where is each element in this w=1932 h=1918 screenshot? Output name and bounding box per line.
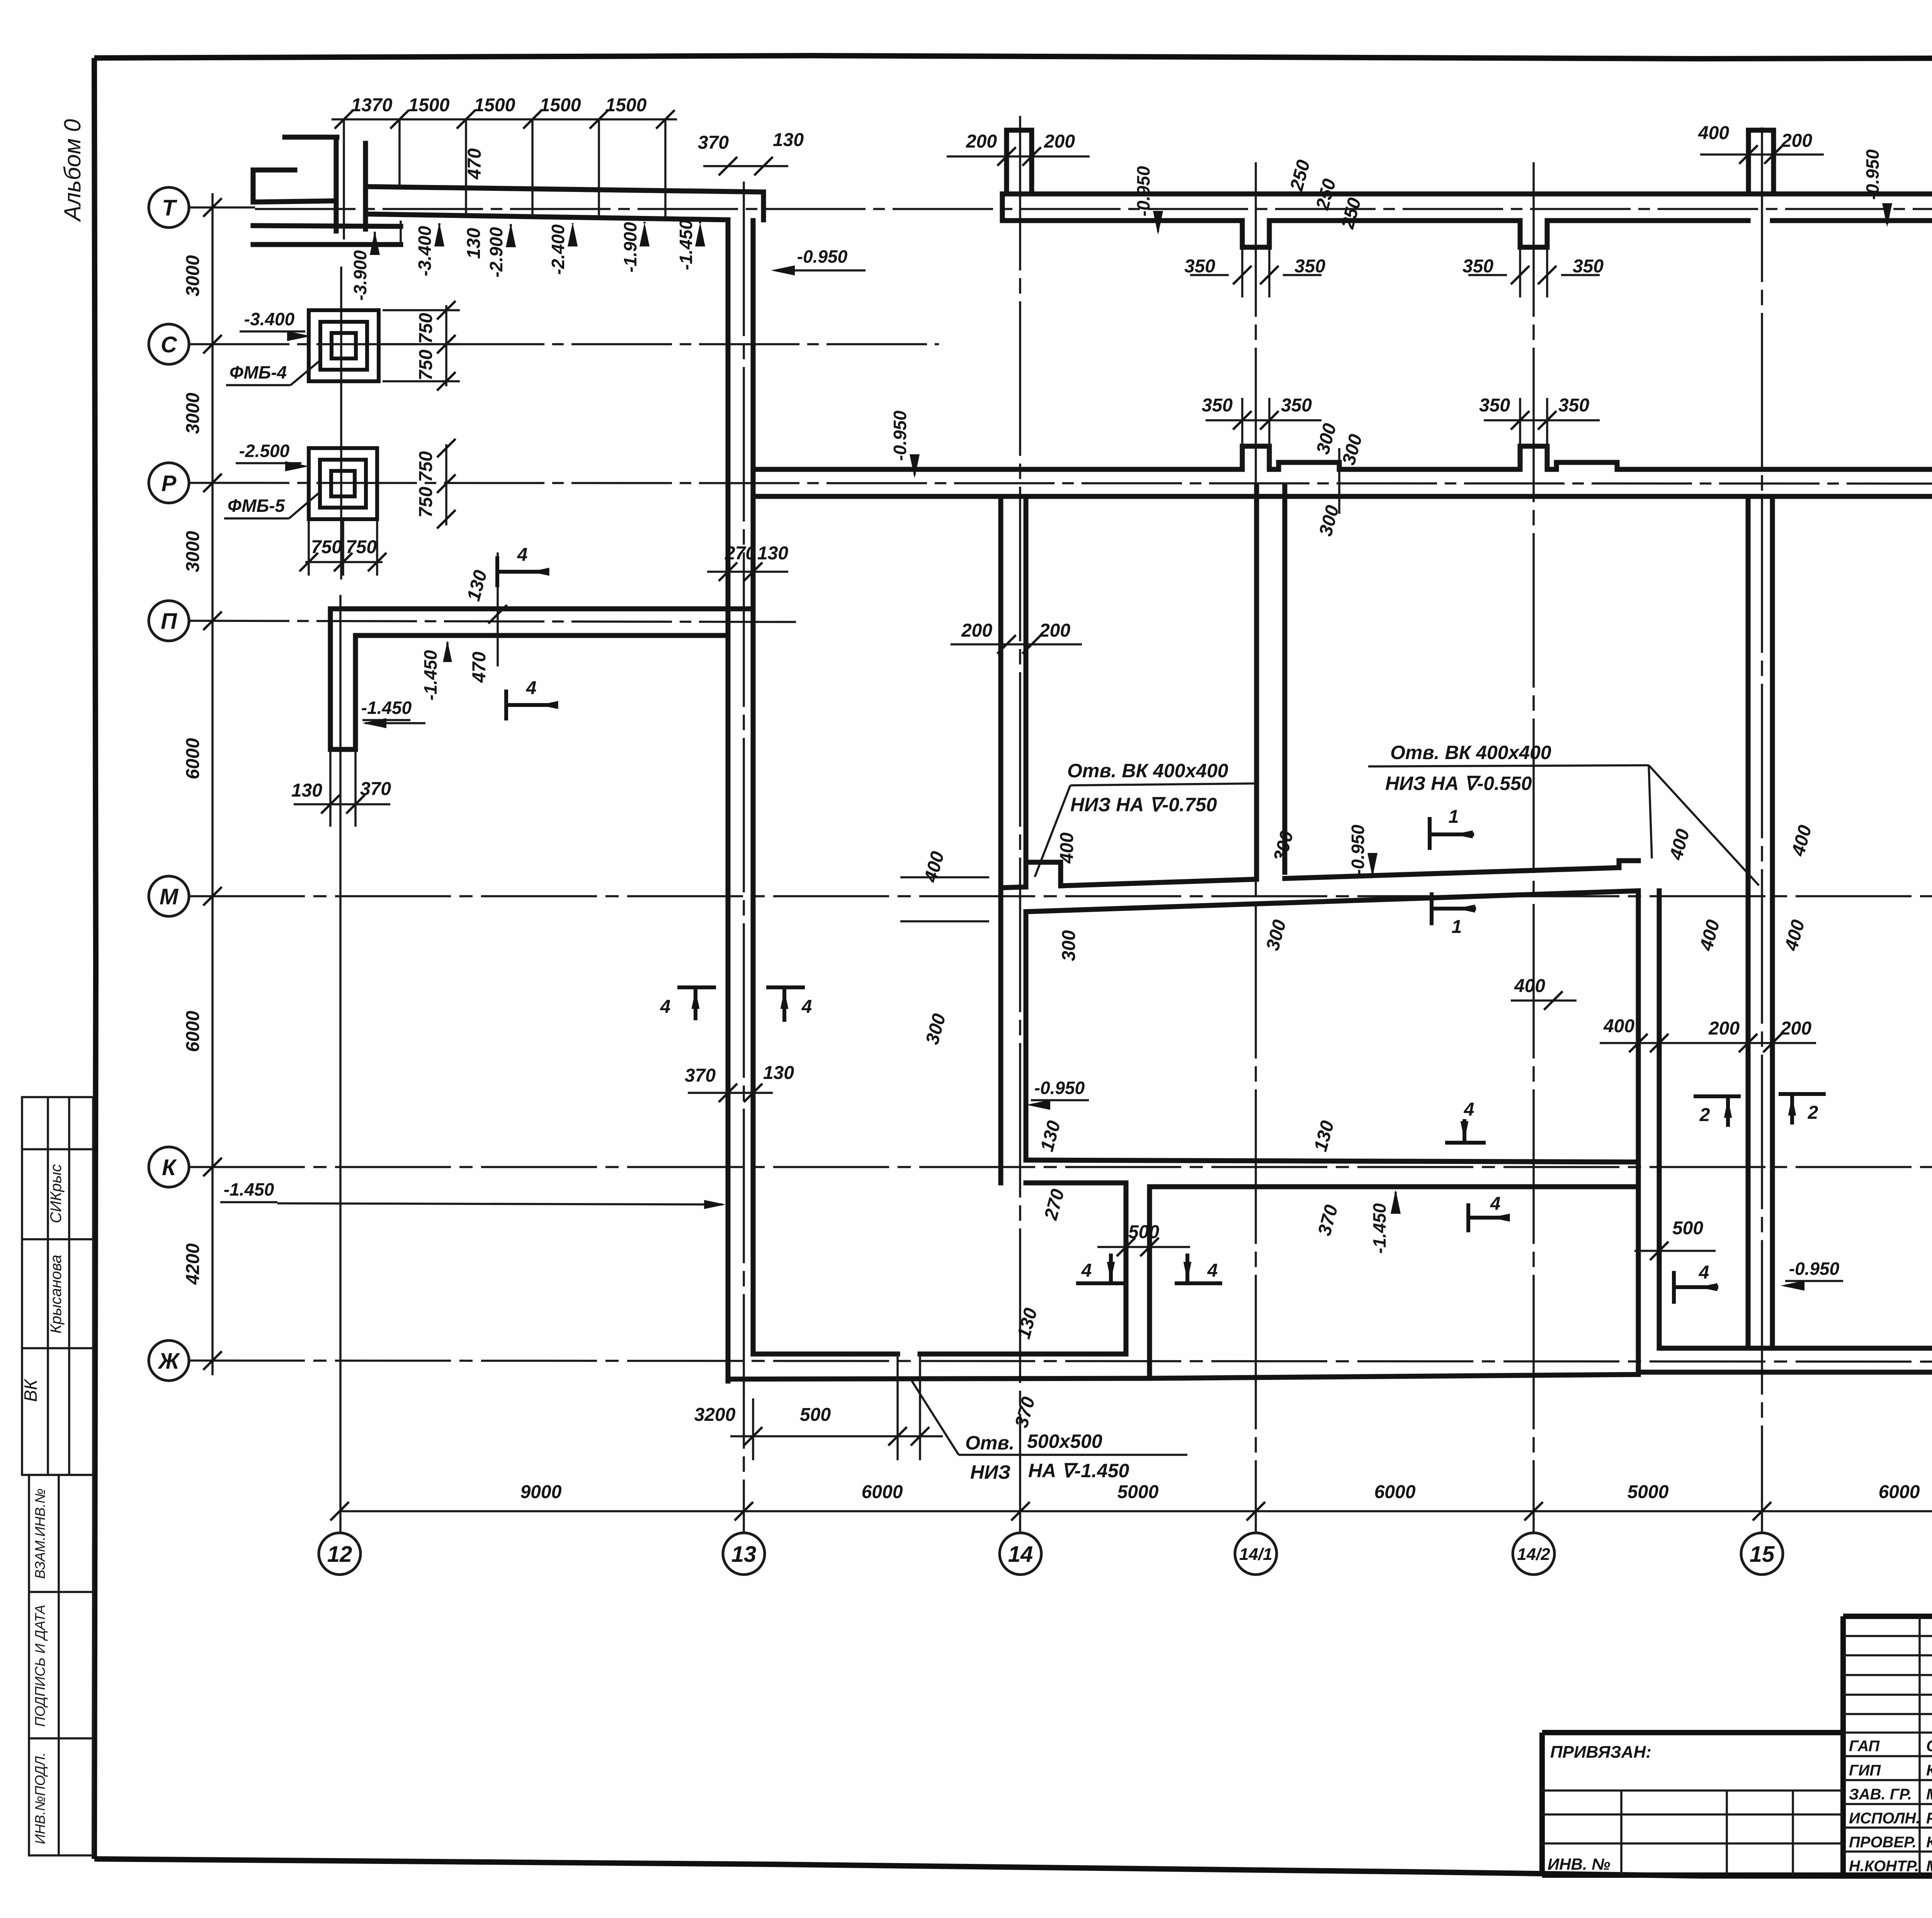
label FMB-5 bbox=[224, 491, 321, 518]
rot level -0.950 T14 bbox=[1133, 166, 1163, 235]
svg-text:200: 200 bbox=[1780, 1018, 1811, 1039]
svg-text:350: 350 bbox=[1281, 395, 1312, 416]
svg-text:4200: 4200 bbox=[183, 1243, 203, 1285]
svg-text:130: 130 bbox=[291, 780, 322, 801]
dim 350x2 P141 bbox=[1202, 395, 1321, 469]
wall T-right notch 14/2 bbox=[1520, 221, 1547, 247]
svg-text:ЗАВ. ГР.: ЗАВ. ГР. bbox=[1849, 1786, 1912, 1803]
circle T bbox=[149, 187, 189, 228]
top dim line 1370+1500x4 bbox=[332, 118, 677, 121]
svg-text:НИЗ НА ∇-0.750: НИЗ НА ∇-0.750 bbox=[1070, 794, 1217, 815]
sheet frame bottom bbox=[94, 1859, 1932, 1877]
wall P shelf bumps 14/1 14/2 bbox=[1279, 462, 1617, 469]
dim 350x2 T142 bbox=[1463, 247, 1604, 297]
dim 370 130 K13 bbox=[685, 1063, 794, 1102]
svg-text:-0.950: -0.950 bbox=[1862, 149, 1883, 200]
bottom dim ticks bbox=[330, 1502, 349, 1520]
footing FMB-5 inner bbox=[331, 471, 355, 496]
top dim ticks bbox=[335, 110, 353, 129]
wall T-left footing shelf bottom bbox=[253, 242, 401, 247]
rot level -0.950 M bbox=[1348, 824, 1378, 877]
svg-text:К: К bbox=[162, 1155, 177, 1180]
svg-text:350: 350 bbox=[1573, 256, 1604, 277]
wall K top face bbox=[1026, 1160, 1638, 1162]
rot level -2.400 bbox=[548, 223, 578, 275]
svg-text:750: 750 bbox=[416, 487, 436, 518]
svg-text:4: 4 bbox=[526, 678, 537, 698]
top dim extension lines bbox=[344, 119, 665, 240]
rot level -2.900 bbox=[486, 223, 516, 277]
level -1.450 K13 bbox=[220, 1179, 726, 1209]
footing FMB-4 inner bbox=[332, 333, 356, 358]
dim 400 200 200 sec2 bbox=[1600, 1016, 1816, 1052]
svg-text:1500: 1500 bbox=[474, 95, 515, 116]
wall T-right notch 14/1 bbox=[1242, 221, 1269, 247]
wall 14/1 left face bbox=[1254, 486, 1259, 875]
footing FMB-5 middle bbox=[320, 460, 366, 508]
circle C bbox=[149, 324, 189, 364]
footing FMB-4 outer bbox=[309, 310, 379, 381]
svg-text:400: 400 bbox=[1698, 123, 1729, 143]
svg-text:6000: 6000 bbox=[183, 1011, 203, 1052]
shaft right wall bbox=[1147, 1187, 1152, 1378]
dim 750 750 FMB5 bottom bbox=[299, 519, 386, 576]
svg-text:-3.900: -3.900 bbox=[350, 250, 370, 301]
wall T-left footing shelf top bbox=[253, 226, 401, 226]
svg-text:400: 400 bbox=[1603, 1016, 1634, 1036]
circle M bbox=[149, 876, 189, 916]
circle 14 bbox=[1000, 1533, 1041, 1575]
axis Pi line bbox=[189, 621, 796, 622]
wall P notch 14/2 bbox=[1520, 446, 1547, 469]
wall stub 15 above T bbox=[1748, 130, 1774, 194]
dim 750 750 FMB5 right bbox=[416, 439, 456, 528]
rot level -3.400 bbox=[415, 223, 444, 276]
svg-text:Р: Р bbox=[162, 471, 177, 496]
svg-text:1500: 1500 bbox=[408, 95, 450, 116]
wall Zh-left top face bbox=[753, 1352, 1125, 1357]
g-title bbox=[1542, 1616, 1932, 1916]
svg-text:Т: Т bbox=[162, 195, 177, 221]
rot level -0.950 P bbox=[890, 410, 920, 478]
svg-text:Крысанова: Крысанова bbox=[48, 1255, 65, 1334]
wall Pi top face bbox=[330, 606, 753, 612]
circle P bbox=[149, 463, 189, 503]
svg-text:200: 200 bbox=[1039, 620, 1070, 641]
svg-text:Отв. ВК 400х400: Отв. ВК 400х400 bbox=[1067, 760, 1228, 781]
section mark 4 pitright bbox=[1447, 1099, 1484, 1143]
svg-text:14/1: 14/1 bbox=[1239, 1545, 1272, 1564]
svg-text:350: 350 bbox=[1479, 395, 1510, 416]
svg-text:4: 4 bbox=[660, 997, 671, 1017]
wall T-left end vertical b bbox=[363, 143, 368, 229]
level -2.500 FMB5 bbox=[236, 441, 309, 471]
svg-text:2: 2 bbox=[1808, 1103, 1818, 1123]
left dim line bbox=[211, 193, 214, 1375]
svg-text:4: 4 bbox=[1464, 1099, 1475, 1120]
wall Pi bottom face bbox=[355, 633, 728, 638]
svg-text:370: 370 bbox=[685, 1065, 716, 1086]
svg-text:НИЗ НА ∇-0.550: НИЗ НА ∇-0.550 bbox=[1385, 773, 1532, 794]
axis 12 line bbox=[340, 267, 341, 1533]
svg-text:4: 4 bbox=[801, 997, 812, 1017]
wall P top faces bbox=[753, 467, 1932, 472]
circle 15 bbox=[1741, 1533, 1783, 1575]
circle 14/2 bbox=[1513, 1533, 1554, 1575]
svg-text:ФМБ-4: ФМБ-4 bbox=[230, 362, 287, 382]
svg-text:350: 350 bbox=[1463, 256, 1493, 277]
rot level -1.450 top bbox=[676, 219, 705, 270]
circle Zh bbox=[149, 1340, 189, 1381]
svg-text:370: 370 bbox=[698, 133, 729, 153]
sheet frame top bbox=[94, 56, 1932, 59]
svg-text:-0.950: -0.950 bbox=[890, 410, 910, 461]
section mark 1 bottom bbox=[1432, 894, 1475, 937]
wall Zh-right bottom face bbox=[1638, 1370, 1932, 1375]
section mark 1 top bbox=[1430, 807, 1473, 848]
rot level -1.900 bbox=[620, 222, 650, 272]
wall 15 right face bbox=[1770, 496, 1775, 1348]
dim 500 pit bbox=[1097, 1222, 1190, 1256]
svg-text:Н.КОНТР.: Н.КОНТР. bbox=[1849, 1858, 1919, 1875]
svg-text:-1.450: -1.450 bbox=[1369, 1203, 1389, 1254]
section mark 2 left bbox=[1696, 1096, 1739, 1125]
dim 750 750 FMB4 right bbox=[383, 301, 460, 391]
svg-text:МОРОЗОВА: МОРОЗОВА bbox=[1926, 1786, 1932, 1803]
svg-text:-1.900: -1.900 bbox=[620, 222, 640, 272]
svg-text:130: 130 bbox=[763, 1063, 794, 1083]
axis 14 line bbox=[1019, 116, 1021, 1533]
svg-text:-1.450: -1.450 bbox=[420, 650, 440, 700]
svg-text:750: 750 bbox=[311, 537, 342, 557]
svg-text:6000: 6000 bbox=[1879, 1482, 1920, 1502]
svg-text:15: 15 bbox=[1750, 1542, 1775, 1567]
privyazan box lines bbox=[1542, 1791, 1843, 1875]
svg-text:470: 470 bbox=[464, 148, 485, 180]
dim 130 370 stub12 bbox=[291, 749, 391, 827]
wall 14 right face bbox=[1024, 496, 1029, 1160]
axis K line bbox=[189, 1166, 1932, 1168]
wall P bottom face bbox=[753, 494, 1932, 499]
rot level -1.450 pitright bbox=[1369, 1190, 1401, 1254]
svg-text:С: С bbox=[161, 332, 177, 357]
wall 15 left face bbox=[1746, 496, 1751, 1348]
svg-text:200: 200 bbox=[1044, 131, 1075, 152]
svg-text:200: 200 bbox=[966, 131, 997, 152]
circle K bbox=[149, 1147, 189, 1187]
circle Pi bbox=[149, 601, 189, 641]
wall sec2 left face bbox=[1636, 891, 1641, 1372]
svg-text:ИНВ.№ПОДЛ.: ИНВ.№ПОДЛ. bbox=[32, 1752, 48, 1844]
footing FMB-4 middle bbox=[320, 322, 367, 370]
svg-text:-2.900: -2.900 bbox=[486, 227, 506, 277]
svg-text:П: П bbox=[161, 609, 177, 634]
svg-text:-0.950: -0.950 bbox=[1133, 166, 1153, 216]
svg-text:МАРГУЛИЯ: МАРГУЛИЯ bbox=[1926, 1858, 1932, 1875]
axis C line bbox=[189, 343, 939, 345]
dim 270 130 P13 bbox=[707, 543, 788, 581]
svg-text:-3.400: -3.400 bbox=[415, 226, 435, 276]
svg-text:14: 14 bbox=[1008, 1542, 1033, 1567]
svg-text:ПРИВЯЗАН:: ПРИВЯЗАН: bbox=[1550, 1743, 1651, 1762]
wall stub 12 below Pi bbox=[330, 609, 355, 749]
svg-text:Альбом 0: Альбом 0 bbox=[60, 119, 85, 222]
svg-text:1: 1 bbox=[1449, 807, 1459, 827]
svg-text:1370: 1370 bbox=[351, 95, 393, 116]
svg-text:ФМБ-5: ФМБ-5 bbox=[228, 496, 286, 516]
svg-text:1500: 1500 bbox=[605, 95, 647, 116]
svg-text:5000: 5000 bbox=[1628, 1482, 1669, 1502]
svg-text:-2.500: -2.500 bbox=[239, 441, 290, 461]
footing FMB-5 outer bbox=[309, 448, 377, 519]
rot level -0.950 T16 bbox=[1862, 149, 1892, 227]
wall Zh opening ticks bbox=[898, 1354, 920, 1379]
stamp column upper box bbox=[22, 1097, 93, 1475]
wall T-left bottom face bbox=[366, 214, 728, 220]
svg-text:1: 1 bbox=[1452, 917, 1462, 937]
svg-text:КАЛЕДИНА: КАЛЕДИНА bbox=[1926, 1762, 1932, 1779]
dim 350x2 T141 bbox=[1184, 247, 1325, 297]
circle 12 bbox=[319, 1533, 361, 1575]
svg-text:Отв. ВК 400х400: Отв. ВК 400х400 bbox=[1390, 742, 1551, 763]
svg-text:М: М bbox=[160, 884, 179, 909]
wall sec2 right face bbox=[1657, 891, 1662, 1348]
svg-text:-1.450: -1.450 bbox=[361, 698, 412, 718]
dim 3200 500 Zh bbox=[694, 1379, 943, 1460]
bottom dim line bbox=[340, 1510, 1932, 1512]
wall M top faces bbox=[1001, 861, 1638, 888]
rot level -3.900 bbox=[350, 231, 380, 301]
svg-text:13: 13 bbox=[731, 1542, 757, 1567]
wall Zh mid single bbox=[1150, 1374, 1638, 1378]
svg-text:3200: 3200 bbox=[694, 1405, 736, 1425]
dim line M142 bbox=[1511, 991, 1577, 1010]
svg-text:4: 4 bbox=[1699, 1262, 1709, 1283]
wall T-left end vertical a bbox=[334, 137, 339, 231]
wall T-left end mid bar bbox=[253, 201, 335, 202]
section mark 4 pit pair bbox=[1078, 1255, 1122, 1283]
svg-text:-0.950: -0.950 bbox=[1789, 1259, 1840, 1279]
level -0.950 K15 bbox=[1781, 1259, 1843, 1291]
svg-text:750: 750 bbox=[416, 313, 436, 344]
svg-text:ПОДПИСЬ И ДАТА: ПОДПИСЬ И ДАТА bbox=[32, 1605, 48, 1727]
g-labels bbox=[220, 309, 1932, 1483]
svg-text:750: 750 bbox=[346, 537, 377, 557]
section mark 4 c pair MK13 bbox=[660, 987, 714, 1018]
svg-text:200: 200 bbox=[961, 620, 992, 641]
svg-text:3000: 3000 bbox=[183, 531, 203, 572]
g-axes bbox=[149, 116, 1932, 1575]
svg-text:-1.450: -1.450 bbox=[676, 219, 696, 270]
svg-text:4: 4 bbox=[1207, 1261, 1218, 1281]
dim 200x2 P14 bbox=[951, 620, 1082, 654]
g-walls bbox=[253, 130, 1932, 1381]
svg-text:350: 350 bbox=[1558, 395, 1589, 416]
svg-text:3000: 3000 bbox=[183, 392, 203, 434]
svg-text:РОНДАРЕВА: РОНДАРЕВА bbox=[1926, 1810, 1932, 1827]
level -0.950 MK14 bbox=[1026, 1078, 1089, 1110]
wall T-right bottom faces bbox=[1002, 218, 1932, 223]
svg-text:200: 200 bbox=[1781, 131, 1812, 151]
level -3.400 FMB4 bbox=[240, 309, 311, 341]
svg-text:5000: 5000 bbox=[1117, 1482, 1159, 1502]
middle grid row lines bbox=[1843, 1733, 1932, 1852]
middle grid upper rows bbox=[1843, 1636, 1932, 1714]
svg-text:-2.400: -2.400 bbox=[548, 224, 568, 275]
otv VK 400x400 left bbox=[1035, 760, 1258, 877]
svg-text:500: 500 bbox=[1672, 1218, 1703, 1238]
dim line M14 left bbox=[900, 877, 989, 921]
dim 350x2 P142 bbox=[1479, 395, 1600, 469]
dim 370 line bbox=[703, 165, 788, 167]
stamp column lower box bbox=[29, 1475, 93, 1855]
svg-text:14/2: 14/2 bbox=[1517, 1545, 1550, 1564]
svg-text:ИСПОЛН.: ИСПОЛН. bbox=[1849, 1810, 1920, 1827]
svg-text:130: 130 bbox=[773, 130, 804, 150]
svg-text:4: 4 bbox=[1081, 1261, 1092, 1281]
wall stub 14 above T bbox=[1007, 130, 1032, 194]
svg-text:2: 2 bbox=[1699, 1105, 1710, 1125]
svg-text:6000: 6000 bbox=[1374, 1482, 1416, 1502]
svg-text:12: 12 bbox=[327, 1542, 352, 1567]
svg-text:ПРОВЕР.: ПРОВЕР. bbox=[1849, 1834, 1917, 1851]
wall K bottom face bbox=[1026, 1183, 1638, 1187]
footing shelf cap bbox=[400, 221, 402, 245]
circle 13 bbox=[723, 1533, 765, 1575]
wall T-right left cap bbox=[1000, 194, 1005, 221]
svg-text:350: 350 bbox=[1184, 256, 1215, 277]
axis Zh line bbox=[189, 1361, 1932, 1362]
svg-text:-0.950: -0.950 bbox=[797, 246, 848, 267]
svg-text:130: 130 bbox=[464, 228, 484, 259]
wall T-left end top bar bbox=[285, 135, 337, 140]
wall T-left end upper shelf bbox=[253, 170, 295, 202]
section mark 4 a bbox=[497, 545, 549, 585]
svg-text:-1.450: -1.450 bbox=[224, 1179, 274, 1199]
svg-text:-0.950: -0.950 bbox=[1348, 824, 1368, 875]
svg-text:НА ∇-1.450: НА ∇-1.450 bbox=[1028, 1460, 1129, 1481]
svg-text:400: 400 bbox=[1514, 976, 1545, 996]
svg-text:4: 4 bbox=[517, 545, 528, 565]
wall M bottom face bbox=[1026, 891, 1638, 912]
svg-text:200: 200 bbox=[1708, 1018, 1740, 1039]
svg-text:750: 750 bbox=[416, 350, 436, 381]
svg-text:350: 350 bbox=[1202, 395, 1233, 416]
sheet frame left bbox=[94, 58, 96, 1859]
section mark 4 K15cell bbox=[1674, 1262, 1718, 1302]
svg-text:500х500: 500х500 bbox=[1027, 1430, 1102, 1452]
svg-text:СМИРНОВ: СМИРНОВ bbox=[1926, 1738, 1932, 1755]
axis M line bbox=[189, 895, 1932, 897]
svg-text:ИНВ. №: ИНВ. № bbox=[1548, 1855, 1610, 1873]
svg-text:400: 400 bbox=[1057, 832, 1077, 864]
svg-text:300: 300 bbox=[1059, 930, 1079, 961]
axis 14/1 line bbox=[1255, 162, 1257, 1533]
axis 13 line bbox=[743, 182, 745, 1533]
svg-text:НИЗ: НИЗ bbox=[970, 1461, 1010, 1483]
axis 15 line bbox=[1761, 127, 1763, 1533]
wall Zh-right top face bbox=[1659, 1346, 1932, 1351]
wall T-left top face bbox=[366, 187, 764, 192]
dim 500 K15 bbox=[1634, 1218, 1716, 1260]
svg-text:1500: 1500 bbox=[540, 95, 581, 116]
axis P line bbox=[189, 483, 1932, 484]
section mark 4 b bbox=[506, 678, 558, 719]
svg-text:ГАП: ГАП bbox=[1849, 1738, 1880, 1755]
title outer frame bbox=[1542, 1616, 1932, 1875]
svg-text:ГИП: ГИП bbox=[1849, 1762, 1881, 1779]
axis T line bbox=[189, 207, 1932, 209]
svg-text:500: 500 bbox=[800, 1405, 831, 1425]
svg-text:9000: 9000 bbox=[520, 1482, 562, 1502]
svg-text:Отв.: Отв. bbox=[965, 1432, 1014, 1454]
middle grid verticals bbox=[1920, 1616, 1932, 1875]
svg-text:-0.950: -0.950 bbox=[1034, 1078, 1085, 1098]
wall P notch 14/1 bbox=[1242, 446, 1269, 469]
g-dims bbox=[291, 95, 1932, 1460]
svg-text:470: 470 bbox=[469, 652, 490, 683]
svg-text:КАЛЕДИНА: КАЛЕДИНА bbox=[1926, 1834, 1932, 1851]
wall Zh-left bottom face bbox=[728, 1378, 1150, 1379]
svg-text:-3.400: -3.400 bbox=[244, 309, 295, 329]
svg-text:3000: 3000 bbox=[183, 255, 203, 296]
svg-text:4: 4 bbox=[1490, 1194, 1501, 1214]
dim 200x2 stub14 bbox=[947, 131, 1090, 166]
wall M notch left bbox=[1026, 862, 1061, 887]
section mark 2 right bbox=[1781, 1094, 1824, 1123]
svg-text:130: 130 bbox=[757, 543, 788, 564]
svg-text:Ж: Ж bbox=[157, 1349, 180, 1374]
svg-text:270: 270 bbox=[724, 543, 756, 564]
svg-text:750: 750 bbox=[416, 451, 436, 482]
svg-text:6000: 6000 bbox=[183, 738, 203, 779]
wall 14 left face bbox=[998, 496, 1003, 1183]
wall 14/1 right face bbox=[1282, 486, 1287, 872]
wall T-left end cap bbox=[761, 192, 766, 220]
wall T-right top face bbox=[1002, 192, 1932, 197]
svg-text:350: 350 bbox=[1294, 256, 1325, 277]
wall 13 left face bbox=[726, 221, 731, 1381]
left dim ticks bbox=[203, 198, 222, 217]
level -0.950 T13 bbox=[771, 246, 866, 275]
svg-text:6000: 6000 bbox=[862, 1482, 903, 1502]
otv 500x500 table bbox=[912, 1381, 1187, 1483]
circle 14/1 bbox=[1235, 1533, 1277, 1575]
svg-text:СИКрыс: СИКрыс bbox=[48, 1164, 65, 1223]
dim 200 stub15 bbox=[1700, 131, 1824, 164]
svg-text:ВЗАМ.ИНВ.№: ВЗАМ.ИНВ.№ bbox=[32, 1488, 48, 1579]
dim 130 Pi bbox=[463, 552, 507, 666]
shaft left wall bbox=[1124, 1183, 1129, 1354]
wall 13 right face bbox=[751, 221, 756, 1354]
svg-text:ВК: ВК bbox=[20, 1378, 41, 1402]
label FMB-4 bbox=[226, 359, 321, 385]
level -1.450 Pi rot bbox=[420, 640, 452, 700]
axis 14/2 line bbox=[1532, 162, 1535, 1533]
otv VK 400x400 right bbox=[1368, 742, 1759, 885]
level -1.450 Pi horiz bbox=[361, 698, 425, 728]
